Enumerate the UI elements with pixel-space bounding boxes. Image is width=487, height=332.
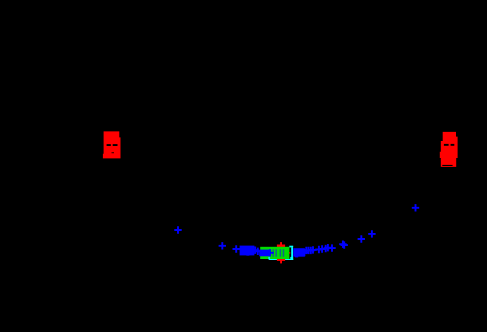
blue trail markers E [303, 247, 310, 254]
blob D bottom bump [295, 256, 298, 257]
cyan square right edge [291, 247, 293, 259]
red bar right [440, 132, 458, 167]
black dash 2 over right bar [451, 144, 455, 146]
blue marker A [174, 226, 181, 233]
black line near bottom of right bar [442, 165, 452, 166]
green square marker (minimum point) [260, 247, 289, 259]
dark glyph bar 3 on green [280, 249, 282, 257]
blue cluster blob C [240, 246, 255, 256]
dark glyph bar 1 on green [272, 249, 274, 257]
black dash 2 over left bar [113, 144, 118, 146]
cluster C left marker [233, 245, 240, 252]
red errorbar stem (under green) [280, 242, 282, 263]
blue blob D right of green [293, 248, 305, 257]
faint dark dash inside left bar [112, 152, 115, 153]
black dash 1 over right bar [444, 144, 449, 146]
black dash 1 over left bar [107, 144, 111, 146]
red block marker (under green) [277, 245, 285, 261]
dark glyph bar 4 on green [283, 249, 285, 257]
red bar left [103, 131, 121, 158]
dark glyph bar 2 on green [275, 249, 277, 257]
cluster C bottom bump [246, 254, 249, 256]
bridge marker [254, 248, 261, 255]
blue marker B [219, 242, 226, 249]
bold double marker F [339, 241, 346, 248]
blue marker H [368, 230, 375, 237]
blue marker I [412, 204, 419, 211]
cluster C right edge marker [252, 247, 259, 254]
blue marker G [358, 235, 365, 242]
cyan bottom-left corner tick over green [268, 257, 270, 259]
cyan square bottom edge [269, 259, 293, 260]
blue blob over green left [259, 250, 270, 257]
blob D edge marker [301, 249, 308, 256]
cyan bottom-right corner [290, 257, 293, 260]
blob edge marker [266, 249, 273, 256]
small red dot on green right [289, 252, 290, 253]
cyan square top-right segment [289, 246, 293, 248]
